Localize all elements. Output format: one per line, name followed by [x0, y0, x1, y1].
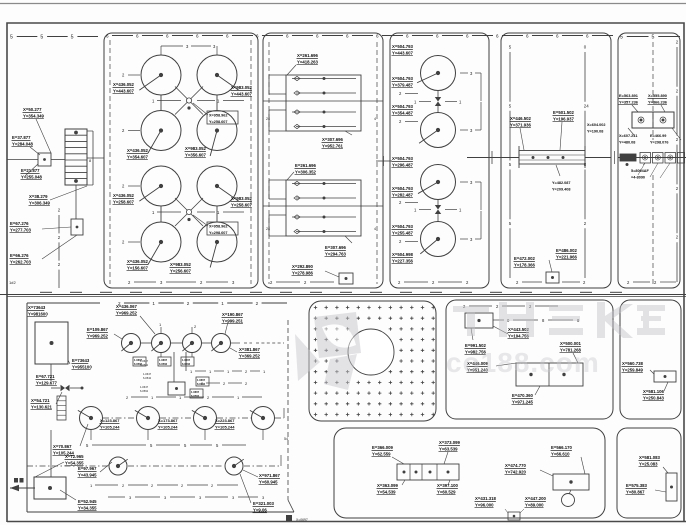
svg-text:6: 6	[436, 33, 439, 38]
svg-text:Y=156.607: Y=156.607	[127, 265, 149, 270]
lane crossing pipe B	[263, 205, 383, 207]
interconnect node A	[175, 87, 203, 115]
svg-text:Y=66.610: Y=66.610	[551, 451, 570, 456]
svg-text:3: 3	[232, 495, 235, 500]
svg-text:E=321.003: E=321.003	[253, 501, 275, 506]
svg-text:6: 6	[226, 33, 229, 38]
panel2 inner dashed right	[374, 42, 377, 284]
row3 chain 1-2	[90, 483, 238, 488]
svg-text:Y=60.945: Y=60.945	[259, 479, 278, 484]
panel south outline	[334, 428, 605, 518]
label dig2	[392, 104, 419, 124]
svg-text:2: 2	[194, 324, 197, 329]
aeration lane group A	[269, 75, 361, 131]
svg-text:X=983.052: X=983.052	[170, 262, 192, 267]
digester valve 2	[435, 200, 441, 222]
aeration lane group B	[269, 180, 361, 236]
label X=190.867	[222, 312, 244, 324]
svg-text:Y=482.087: Y=482.087	[552, 181, 570, 185]
wire valve to outfall	[50, 430, 52, 477]
panel sludge-yard outline	[501, 33, 611, 288]
border top line	[0, 3, 686, 5]
svg-text:1-0647: 1-0647	[140, 359, 149, 363]
svg-text:1: 1	[414, 100, 417, 105]
label dig bottom	[392, 252, 414, 264]
svg-text:3: 3	[470, 237, 473, 242]
label E=466.99	[650, 134, 668, 144]
ladder side bracket	[87, 131, 93, 185]
svg-text:2: 2	[399, 119, 402, 124]
leader	[496, 363, 516, 366]
svg-text:X=38.279: X=38.279	[29, 194, 48, 199]
svg-text:E=37.877: E=37.877	[12, 135, 31, 140]
label dig1b	[392, 76, 419, 96]
label X=447.200	[525, 496, 547, 508]
label dig3	[392, 156, 414, 168]
clarifier tank T4	[197, 111, 237, 157]
leader	[114, 334, 122, 339]
leader	[444, 452, 448, 464]
label dig4	[392, 224, 419, 244]
digester D4	[420, 222, 455, 257]
svg-text:Y=969.252: Y=969.252	[87, 333, 109, 338]
svg-text:2: 2	[245, 381, 248, 386]
dig bracket 3	[460, 180, 481, 210]
label X=443.502	[508, 327, 530, 339]
svg-text:3: 3	[232, 280, 235, 285]
svg-text:2: 2	[270, 280, 273, 285]
svg-text:6-0542: 6-0542	[143, 376, 152, 380]
svg-text:1: 1	[152, 99, 155, 104]
svg-text:E=261.696: E=261.696	[295, 163, 317, 168]
svg-text:3: 3	[213, 44, 216, 49]
panel aeration-lanes outline	[263, 33, 383, 288]
svg-text:Y=298.607: Y=298.607	[209, 231, 227, 235]
label below bar	[552, 181, 570, 191]
svg-text:Y=306.352: Y=306.352	[295, 169, 317, 174]
leader	[505, 509, 524, 513]
thickener bar	[519, 146, 585, 168]
svg-text:2: 2	[304, 280, 307, 285]
svg-text:2: 2	[122, 483, 125, 488]
svg-text:Y=25.083: Y=25.083	[639, 461, 658, 466]
panel4 outlet box	[546, 272, 559, 283]
svg-text:6: 6	[106, 33, 109, 38]
label X=70.867	[53, 444, 75, 456]
svg-text:2: 2	[58, 208, 61, 213]
svg-text:1: 1	[152, 301, 155, 306]
svg-text:6: 6	[406, 33, 409, 38]
svg-text:Y=306.349: Y=306.349	[29, 200, 51, 205]
tiny box	[508, 512, 520, 520]
svg-text:X=504.793: X=504.793	[392, 44, 414, 49]
svg-text:4: 4	[374, 227, 376, 231]
label E=472.002	[514, 256, 536, 268]
svg-text:Y=9.06: Y=9.06	[253, 507, 267, 512]
outfall arrow	[10, 478, 35, 491]
leader	[663, 467, 668, 473]
leader	[471, 328, 473, 340]
panel east-south outline	[620, 300, 681, 419]
pump P31	[109, 457, 128, 475]
svg-text:Y=282.487: Y=282.487	[392, 192, 414, 197]
svg-text:Y=981600: Y=981600	[28, 311, 48, 316]
outfall box	[34, 477, 66, 499]
pump P12	[151, 334, 170, 353]
leader	[56, 392, 62, 404]
svg-text:5: 5	[184, 443, 187, 448]
svg-text:2: 2	[496, 304, 499, 309]
svg-text:Y=354.607: Y=354.607	[127, 154, 149, 159]
boxed label node B	[207, 222, 238, 235]
svg-text:X=292.890: X=292.890	[292, 264, 314, 269]
inlet box	[38, 153, 51, 166]
digit 2 r3	[122, 184, 140, 189]
leader	[345, 131, 352, 135]
svg-text:Y=999.251: Y=999.251	[222, 318, 244, 323]
svg-text:X=0697: X=0697	[296, 518, 308, 522]
chain 1 dig34	[414, 208, 462, 213]
leader	[655, 490, 666, 492]
svg-text:Y=262.703: Y=262.703	[10, 259, 32, 264]
label X=581.106	[643, 389, 665, 401]
svg-text:6: 6	[496, 33, 499, 38]
svg-text:1: 1	[217, 99, 220, 104]
svg-text:2: 2	[187, 301, 190, 306]
svg-text:Y=258.607: Y=258.607	[113, 199, 135, 204]
svg-text:Y=63.539: Y=63.539	[439, 446, 458, 451]
wire ladder down to valve	[75, 185, 77, 219]
label X=436.067	[116, 304, 138, 316]
svg-text:X=504.793: X=504.793	[392, 76, 414, 81]
panel south-east outline	[617, 428, 681, 518]
label E=501.502	[553, 110, 575, 122]
label X=397.100	[437, 483, 459, 495]
svg-text:1: 1	[217, 210, 220, 215]
svg-text:Y=371.936: Y=371.936	[510, 122, 532, 127]
clarifier tank T8	[197, 222, 237, 268]
leader	[520, 128, 524, 150]
svg-text:E=470.360: E=470.360	[512, 393, 534, 398]
panel4 inner dashed left	[509, 45, 512, 279]
label X=560.738	[622, 361, 644, 373]
svg-text:E=501.502: E=501.502	[553, 110, 575, 115]
svg-text:24: 24	[584, 103, 589, 108]
leader	[632, 105, 665, 112]
svg-text:Y=418.263: Y=418.263	[297, 59, 319, 64]
svg-text:5: 5	[652, 34, 655, 40]
feed valve	[51, 364, 84, 391]
svg-text:X=436.067: X=436.067	[116, 304, 138, 309]
svg-text:Y=227.356: Y=227.356	[392, 258, 414, 263]
digit 2 r2	[122, 128, 140, 133]
svg-text:X=555.890: X=555.890	[648, 93, 667, 98]
chain line 5 right	[620, 34, 680, 40]
es box	[654, 371, 676, 382]
intake box	[35, 322, 68, 364]
svg-text:Y=259.849: Y=259.849	[622, 367, 644, 372]
manifold risers	[161, 352, 192, 382]
svg-text:Y=284.048: Y=284.048	[12, 141, 34, 146]
chain 1 dig12	[414, 100, 462, 105]
manifold chain2	[201, 381, 248, 386]
label X=474.770	[505, 463, 527, 475]
svg-text:X=73643: X=73643	[28, 305, 46, 310]
svg-text:E=566.170: E=566.170	[551, 445, 573, 450]
panel5 inner dashed	[652, 42, 654, 284]
svg-text:1-0667: 1-0667	[191, 390, 200, 394]
label X=446.502	[510, 116, 532, 128]
svg-text:E=563.891: E=563.891	[619, 93, 639, 98]
svg-text:1: 1	[152, 210, 155, 215]
svg-text:X=581.083: X=581.083	[639, 455, 661, 460]
row3 chain 5	[86, 443, 246, 448]
label X=983.052 b	[185, 146, 207, 158]
svg-text:2: 2	[466, 280, 469, 285]
svg-text:Y=209.408: Y=209.408	[552, 187, 570, 191]
label E=52.945	[78, 499, 98, 511]
label X=607.241	[619, 134, 637, 144]
svg-text:2: 2	[654, 280, 657, 285]
label X=381.867	[239, 347, 261, 359]
svg-text:X=983.052: X=983.052	[231, 196, 253, 201]
label E=67.276	[10, 221, 32, 233]
svg-text:2: 2	[245, 369, 248, 374]
valve box row	[626, 153, 685, 179]
svg-text:6: 6	[166, 33, 169, 38]
svg-text:Y=196.937: Y=196.937	[553, 116, 575, 121]
leader node A	[193, 103, 208, 115]
svg-text:6: 6	[346, 33, 349, 38]
tag text block c	[140, 385, 149, 393]
svg-text:Y=298.076: Y=298.076	[650, 140, 668, 144]
pond outlet box	[339, 273, 353, 284]
svg-text:Y=105.244: Y=105.244	[158, 424, 178, 429]
label X=73643 top	[28, 305, 49, 317]
yard circle	[348, 329, 394, 375]
digester valve 1	[435, 91, 441, 113]
pump P21	[78, 407, 103, 430]
svg-text:Y=294.763: Y=294.763	[325, 251, 347, 256]
svg-text:3: 3	[186, 44, 189, 49]
panel2 bottom chain	[270, 280, 334, 285]
svg-text:Y=955100: Y=955100	[72, 364, 92, 369]
svg-text:2: 2	[200, 280, 203, 285]
label X=436.052 b	[127, 148, 149, 160]
label X=223.867	[215, 418, 236, 430]
pump P23	[192, 407, 217, 430]
svg-text:6: 6	[556, 33, 559, 38]
svg-text:E=472.002: E=472.002	[514, 256, 536, 261]
label dig1	[392, 44, 414, 56]
row2 top chain	[126, 395, 262, 400]
svg-text:X=261.696: X=261.696	[297, 53, 319, 58]
label E=109.867	[87, 327, 109, 339]
pond chain right	[493, 318, 580, 323]
svg-text:Y=255.487: Y=255.487	[392, 230, 414, 235]
svg-text:2: 2	[627, 280, 630, 285]
svg-text:2: 2	[399, 91, 402, 96]
svg-text:2: 2	[122, 128, 125, 133]
label E=470.360	[512, 393, 534, 405]
row1 pipe	[141, 342, 211, 344]
svg-text:Y=62.559: Y=62.559	[372, 451, 391, 456]
label X=261.696 B	[295, 163, 317, 175]
pump panel left edge	[26, 303, 28, 512]
panel5 bottom chain	[627, 280, 676, 285]
label X=54.721	[31, 398, 53, 410]
pump panel right dashed edge	[284, 320, 294, 512]
svg-text:E=575.383: E=575.383	[626, 483, 648, 488]
svg-text:Y=356.607: Y=356.607	[185, 152, 207, 157]
chain 1 row34	[152, 210, 244, 215]
watermark co188 logo and text	[295, 302, 665, 390]
clarifier tank T1	[139, 55, 181, 95]
svg-text:2: 2	[122, 73, 125, 78]
leader	[549, 260, 552, 272]
leader	[540, 470, 553, 476]
leader	[581, 457, 585, 474]
svg-text:X=604.002: X=604.002	[587, 123, 605, 127]
svg-text:X=307.696: X=307.696	[322, 137, 344, 142]
pump P13	[182, 334, 201, 353]
svg-text:X=447.200: X=447.200	[525, 496, 547, 501]
svg-text:X=504.793: X=504.793	[392, 104, 414, 109]
tank bottom chain	[128, 280, 235, 285]
svg-text:E=52.945: E=52.945	[78, 499, 97, 504]
svg-text:3: 3	[470, 128, 473, 133]
label X=73643 right	[72, 358, 93, 370]
svg-text:1: 1	[263, 369, 266, 374]
leader	[448, 480, 450, 485]
svg-text:2: 2	[151, 483, 154, 488]
svg-text:E=109.867: E=109.867	[87, 327, 109, 332]
manifold chain	[190, 369, 266, 374]
svg-text:5: 5	[509, 103, 512, 108]
svg-text:Y=357.236: Y=357.236	[619, 99, 639, 104]
pump panel top chain	[27, 301, 287, 306]
svg-text:X=70.867: X=70.867	[53, 444, 72, 449]
south pump box	[553, 474, 589, 490]
svg-text:X=436.052: X=436.052	[113, 82, 135, 87]
leader	[392, 457, 404, 464]
label E=366.009	[372, 445, 394, 457]
corner mark	[286, 515, 308, 522]
svg-text:4: 4	[374, 117, 376, 121]
svg-text:Y=43.945: Y=43.945	[78, 472, 97, 477]
label X=38.279	[29, 194, 51, 206]
meter box pair	[628, 112, 681, 140]
svg-text:Y=89.000: Y=89.000	[525, 502, 544, 507]
dig bracket 4	[460, 211, 481, 242]
panel pond outline	[446, 300, 613, 419]
svg-text:X=431.318: X=431.318	[475, 496, 497, 501]
svg-text:X=123.867: X=123.867	[100, 418, 120, 423]
svg-text:Y=258.607: Y=258.607	[231, 202, 253, 207]
label X=436.052 d	[127, 259, 149, 271]
svg-text:E=486.002: E=486.002	[556, 248, 578, 253]
tank top bracket	[161, 44, 217, 55]
pump P22	[135, 407, 160, 430]
svg-text:X=373.099: X=373.099	[439, 440, 461, 445]
tag text block b	[143, 372, 152, 380]
leader	[60, 490, 76, 500]
chain vertical far-left	[58, 208, 61, 289]
svg-text:X=50.277: X=50.277	[23, 107, 42, 112]
dig bracket 2	[460, 102, 481, 133]
svg-text:X=983.052: X=983.052	[185, 146, 207, 151]
label X=436.052 c	[113, 193, 135, 205]
svg-text:1: 1	[221, 301, 224, 306]
clarifier tank T7	[141, 222, 181, 265]
panel1 inner dashed right	[250, 40, 252, 284]
svg-text:1: 1	[414, 208, 417, 213]
svg-text:3: 3	[129, 495, 132, 500]
row1 riser 1	[159, 322, 162, 333]
south cell box	[397, 464, 459, 480]
tag text block a	[140, 359, 149, 367]
svg-text:X=381.867: X=381.867	[239, 347, 261, 352]
svg-text:X=504.793: X=504.793	[392, 186, 414, 191]
row2 stems	[91, 430, 263, 440]
label X=373.099	[439, 440, 461, 452]
svg-text:Y=443.607: Y=443.607	[231, 91, 253, 96]
svg-text:Y=480.08: Y=480.08	[619, 140, 635, 144]
svg-text:co188.com: co188.com	[446, 347, 600, 378]
divider tiny text	[9, 280, 16, 285]
wire inlet to ladder	[51, 159, 65, 161]
label X=72.965	[65, 454, 85, 466]
leader	[68, 360, 70, 364]
clarifier tank T3	[141, 111, 181, 154]
svg-text:6: 6	[376, 33, 379, 38]
leader	[556, 165, 560, 176]
label X=292.890	[292, 264, 314, 276]
svg-text:6: 6	[256, 33, 259, 38]
label dig3b	[392, 186, 419, 205]
svg-text:1: 1	[179, 395, 182, 400]
svg-text:X=363.099: X=363.099	[377, 483, 399, 488]
leader	[30, 147, 40, 155]
leader	[100, 462, 112, 472]
leader	[240, 474, 251, 503]
svg-text:Y=379.487: Y=379.487	[392, 82, 414, 87]
svg-text:1-0647: 1-0647	[140, 385, 149, 389]
svg-text:2: 2	[211, 483, 214, 488]
svg-text:Y=80.867: Y=80.867	[626, 489, 645, 494]
svg-text:5: 5	[150, 443, 153, 448]
svg-text:X=223.867: X=223.867	[215, 418, 235, 423]
label X=123.867 2	[158, 418, 179, 430]
svg-text:1: 1	[227, 369, 230, 374]
svg-text:X=581.106: X=581.106	[643, 389, 665, 394]
svg-text:8: 8	[542, 318, 545, 323]
label E=991.502	[465, 343, 487, 355]
label E=566.170	[551, 445, 573, 457]
wire box to ring	[569, 490, 571, 494]
svg-text:54: 54	[284, 437, 288, 441]
svg-text:Y=443.607: Y=443.607	[392, 50, 414, 55]
panel2 inner dashed left	[266, 42, 270, 284]
svg-text:2: 2	[676, 186, 679, 191]
svg-text:Y=221.966: Y=221.966	[556, 254, 578, 259]
svg-text:Y=369.252: Y=369.252	[239, 353, 261, 358]
svg-text:E=307.696: E=307.696	[325, 245, 347, 250]
trunk cross P2-P3 gap	[376, 156, 392, 166]
clarifier tank T6	[197, 166, 239, 206]
manifold box	[168, 382, 185, 395]
svg-text:X=397.100: X=397.100	[437, 483, 459, 488]
